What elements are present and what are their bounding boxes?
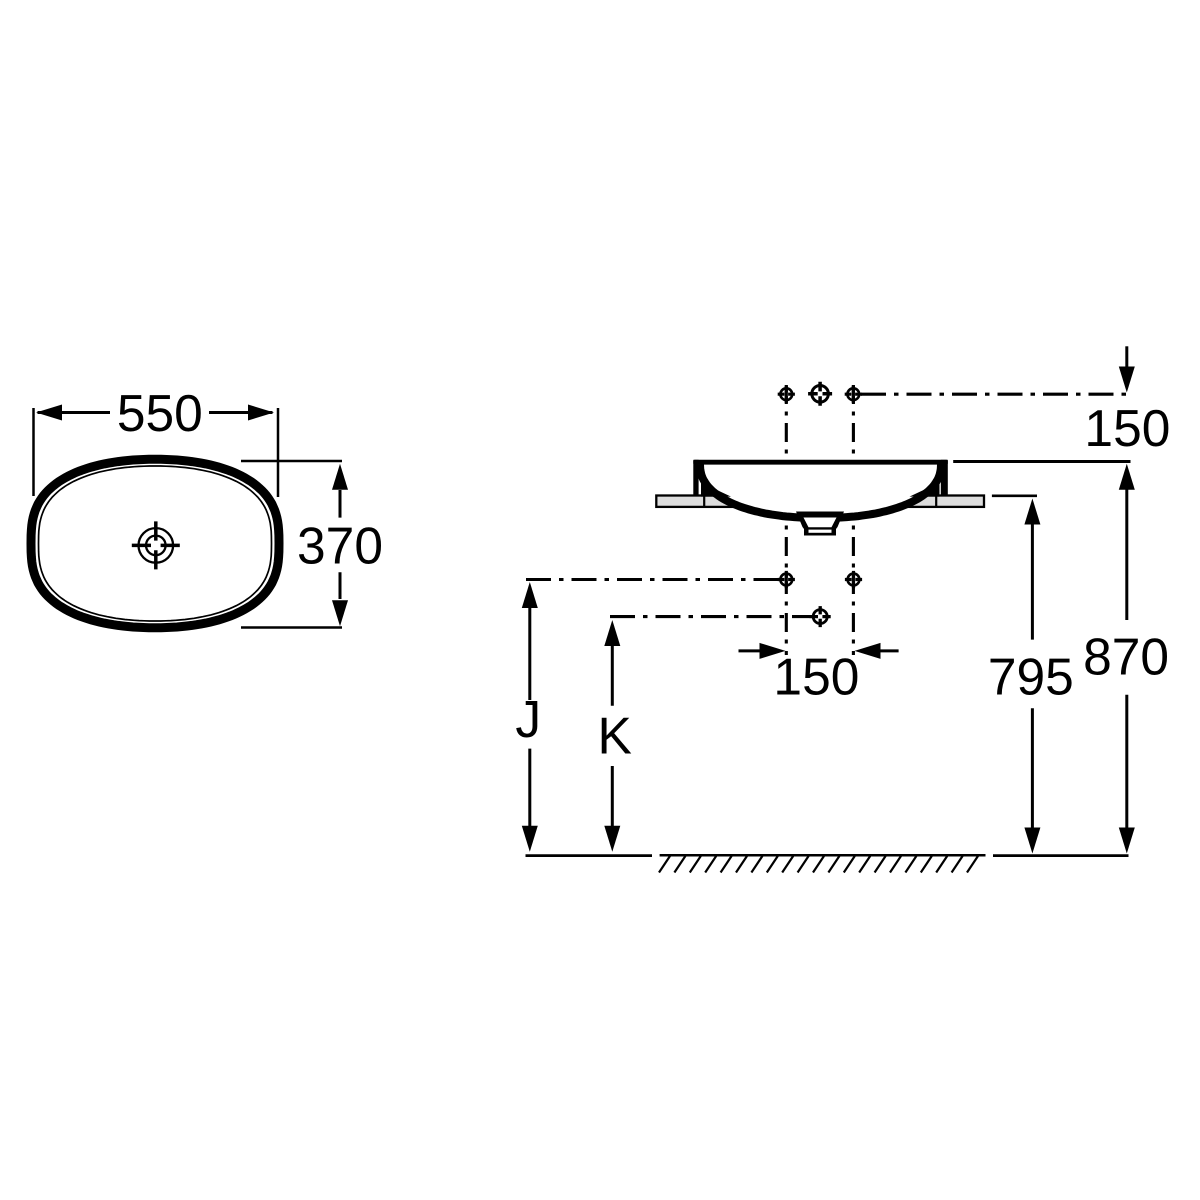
tap hole mark lower-centre: [810, 606, 831, 627]
dimension 150 (hole spacing): left arrow: [739, 649, 762, 652]
ground hatching top line: [660, 854, 986, 857]
svg-text:550: 550: [117, 384, 203, 442]
svg-text:150: 150: [1084, 399, 1170, 457]
countertop (section, grey): [656, 496, 984, 507]
dimension J: line with arrows: [522, 582, 538, 608]
ground hatching diagonal strokes: [659, 856, 978, 873]
drain centre mark (crosshair) in plan view: [132, 521, 180, 569]
dimension 550: dimension line with outward arrows: [38, 411, 273, 414]
hole axis line to J dimension (dash-dot): [526, 578, 778, 581]
rim level extension line (right): [953, 460, 1130, 463]
countertop cut-out edge right: [935, 496, 937, 507]
vertical centre line (left fixing hole axis): [785, 385, 788, 655]
drain outlet slot: [809, 530, 832, 533]
svg-text:795: 795: [988, 647, 1074, 705]
basin elevation: left wall/counter wedge: [701, 483, 731, 497]
dimension 370: top extension line: [241, 460, 342, 463]
fixing hole mark top-right: [845, 386, 862, 403]
countertop level extension line (right): [992, 494, 1037, 497]
fixing hole mark top-left: [778, 386, 795, 403]
dimension 150 (hole spacing): right arrow: [855, 643, 881, 659]
basin elevation: bowl (white interior, thick outline arc): [700, 465, 941, 519]
dimension 370: bottom extension line: [241, 626, 342, 629]
dimension K: line with arrows: [604, 620, 620, 646]
svg-text:J: J: [515, 690, 541, 748]
fixing hole mark mid-right: [845, 571, 862, 588]
dimension 150 (height above rim): down arrow: [1125, 346, 1128, 367]
fixing hole mark mid-left: [778, 571, 795, 588]
basin plan view: outer rim (thick superellipse): [31, 459, 279, 627]
svg-text:870: 870: [1083, 628, 1169, 686]
dimension 550: right extension line: [277, 408, 280, 497]
dimension 870: line with arrows: [1119, 464, 1135, 490]
svg-text:K: K: [598, 706, 632, 764]
dimension 370: dimension line with outward arrows: [339, 490, 342, 599]
dimension 550: left extension line: [32, 408, 35, 496]
hole axis line to K dimension (dash-dot): [610, 615, 810, 618]
basin plan view: inner rim line: [39, 466, 272, 621]
basin elevation: left wall: [693, 460, 698, 496]
svg-text:370: 370: [297, 517, 383, 575]
dimension 795: line with arrows: [1024, 499, 1040, 525]
svg-text:150: 150: [773, 647, 859, 705]
drain outlet (black body): [796, 512, 844, 536]
basin elevation: right wall: [941, 460, 948, 496]
floor line right segment: [993, 854, 1129, 857]
countertop cut-out edge left: [703, 496, 705, 507]
drain outlet inner white cavity: [804, 518, 837, 528]
hole axis line to 150 dimension (dash-dot, top right): [861, 393, 1130, 396]
tap hole mark top-centre (larger): [808, 382, 832, 406]
basin elevation: rim top bar: [693, 460, 948, 465]
floor line left segment: [526, 854, 653, 857]
vertical centre line (right fixing hole axis): [852, 385, 855, 655]
basin elevation: right wall/counter wedge: [910, 483, 940, 497]
